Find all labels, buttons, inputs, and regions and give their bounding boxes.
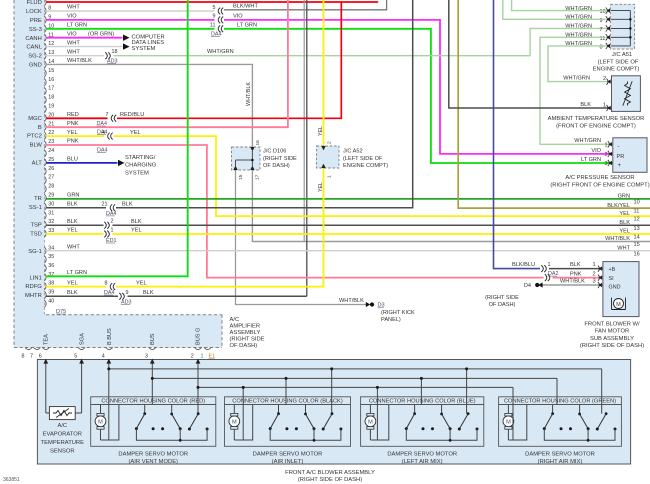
servo feed wires U4 (blue): [376, 387, 378, 440]
svg-text:PRE: PRE: [30, 18, 42, 24]
inline connector 9 on pin9 wire: [218, 17, 220, 24]
wire top RED (pin 7, cropped): [46, 1, 377, 3]
svg-text:16: 16: [48, 77, 54, 83]
svg-text:FAN MOTOR: FAN MOTOR: [595, 329, 629, 335]
svg-text:EVAPORATOR: EVAPORATOR: [43, 431, 82, 437]
arrow BUS G feed: [196, 359, 201, 364]
inline connector 5 on pin8 wire: [218, 8, 220, 15]
svg-text:7: 7: [30, 354, 33, 360]
A/C amplifier assembly interior shading (left strip): [14, 0, 45, 315]
A/C pressure sensor box: [613, 138, 647, 173]
svg-text:1: 1: [593, 262, 596, 268]
svg-text:DAMPER SERVO MOTOR: DAMPER SERVO MOTOR: [118, 452, 188, 458]
svg-text:ALT: ALT: [32, 160, 43, 166]
blower pin1 connector: [598, 266, 600, 272]
ambient sensor pin2 connector: [607, 79, 609, 85]
svg-text:7: 7: [106, 112, 109, 118]
servo motor U4 (blue): [367, 413, 374, 416]
svg-text:J/C A51: J/C A51: [612, 52, 632, 58]
blower motor symbol: [614, 299, 624, 309]
svg-text:WHT/BLK: WHT/BLK: [605, 236, 630, 242]
svg-text:15: 15: [48, 68, 54, 74]
svg-text:CONNECTOR HOUSING COLOR (RED): CONNECTOR HOUSING COLOR (RED): [101, 399, 205, 405]
ambient temperature sensor thermistor: [625, 82, 631, 106]
svg-text:8: 8: [22, 354, 25, 360]
arrow to computer data lines system (pin11): [123, 35, 130, 41]
servo connector box U4 (blue): [361, 397, 484, 447]
svg-text:(AIR VENT MODE): (AIR VENT MODE): [129, 459, 179, 465]
inline connector 2 on pin32 wire: [104, 222, 106, 229]
svg-text:-: -: [618, 144, 620, 150]
svg-text:GRN: GRN: [67, 193, 79, 199]
svg-text:PTC2: PTC2: [27, 134, 42, 140]
svg-text:LIN1: LIN1: [30, 275, 42, 281]
wire pin14 WHT/BLK to J/C D106 pin16: [46, 64, 252, 147]
svg-text:OF DASH): OF DASH): [230, 343, 258, 349]
svg-text:35: 35: [48, 254, 54, 260]
servo motor U3 (black): [231, 413, 238, 416]
svg-text:BLK: BLK: [131, 219, 142, 225]
svg-text:FRONT A/C BLOWER ASSEMBLY: FRONT A/C BLOWER ASSEMBLY: [285, 470, 375, 476]
wire pin32 BLK to right edge (circuit 13): [46, 224, 104, 226]
svg-text:BLK: BLK: [143, 290, 154, 296]
svg-text:YEL: YEL: [136, 280, 147, 286]
blower pin3 connector: [598, 282, 600, 288]
svg-text:16: 16: [634, 251, 640, 257]
J/C D106 pin17 arrow: [250, 166, 254, 170]
junction connector J/C A52 box: [317, 146, 340, 168]
pressure sensor pin3 connector: [608, 160, 610, 166]
svg-text:363851: 363851: [3, 477, 20, 483]
svg-text:WHT/GRN: WHT/GRN: [565, 24, 592, 30]
servo feed wires U2 (red): [108, 361, 110, 441]
bus wire 2 (BUS): [152, 377, 557, 379]
svg-text:2: 2: [603, 76, 606, 82]
svg-text:SUB ASSEMBLY: SUB ASSEMBLY: [590, 336, 634, 342]
svg-text:BLK: BLK: [580, 102, 591, 108]
svg-text:RDFG: RDFG: [25, 284, 42, 290]
svg-text:16: 16: [255, 140, 261, 146]
bus wire 3 (BUS G): [198, 386, 513, 388]
wire pin9 VIO: [46, 19, 215, 21]
wire pin37 LT GRN to top edge: [46, 0, 188, 276]
svg-text:PANEL): PANEL): [381, 317, 401, 323]
svg-text:M: M: [616, 302, 621, 308]
svg-text:18: 18: [48, 95, 54, 101]
wire pin34 WHT to right edge (circuit 16): [46, 250, 650, 252]
svg-text:15: 15: [238, 174, 244, 180]
servo position switch U3 (black): [278, 405, 280, 414]
svg-text:FRONT BLOWER W/: FRONT BLOWER W/: [584, 321, 640, 327]
svg-text:SENSOR: SENSOR: [50, 448, 74, 454]
wire BLK vertical (MHTR riser): [306, 0, 308, 296]
svg-text:+B: +B: [609, 267, 616, 273]
svg-text:10: 10: [634, 200, 640, 206]
svg-text:1: 1: [111, 228, 114, 234]
servo connector box U5 (green): [499, 397, 622, 447]
svg-text:1: 1: [201, 354, 204, 360]
wire pin25 BLU: [46, 162, 118, 164]
svg-text:LT GRN: LT GRN: [67, 23, 87, 29]
wire SGA to evaporator sensor: [81, 361, 83, 414]
svg-text:TSP: TSP: [31, 223, 42, 229]
svg-text:5: 5: [213, 5, 216, 11]
svg-text:3: 3: [593, 279, 596, 285]
svg-text:PNK: PNK: [570, 271, 582, 277]
svg-text:YEL: YEL: [130, 130, 141, 136]
wire BLK from top edge to ambient sensor pin1: [449, 0, 612, 108]
wire pin11 VIO (OR GRN): [46, 37, 123, 39]
svg-text:VIO: VIO: [233, 14, 243, 20]
svg-text:WHT/BLK: WHT/BLK: [339, 298, 364, 304]
svg-text:YEL: YEL: [318, 182, 324, 192]
svg-text:PR: PR: [617, 154, 625, 160]
svg-text:19: 19: [48, 104, 54, 110]
svg-text:27: 27: [48, 175, 54, 181]
svg-text:M: M: [98, 420, 103, 426]
svg-text:BLK: BLK: [67, 201, 78, 207]
svg-text:ASSEMBLY: ASSEMBLY: [230, 330, 261, 336]
svg-text:YEL: YEL: [67, 228, 78, 234]
servo motor U2 (red): [97, 413, 104, 416]
svg-text:DAMPER SERVO MOTOR: DAMPER SERVO MOTOR: [387, 452, 457, 458]
wire WHT/BLK J/C D106 pin15 to ground D3: [236, 170, 368, 305]
svg-text:26: 26: [48, 166, 54, 172]
ambient temperature sensor box: [612, 76, 641, 112]
A/C evaporator temperature sensor box: [49, 407, 75, 420]
wire WHT/GRN J/C A51 pin11 to pressure sensor pin1: [540, 37, 613, 144]
svg-text:YEL: YEL: [131, 228, 142, 234]
wire pin10 LT GRN: [46, 28, 215, 30]
svg-text:(RIGHT SIDE OF DASH): (RIGHT SIDE OF DASH): [298, 477, 362, 483]
svg-text:PNK: PNK: [67, 139, 79, 145]
svg-text:13: 13: [634, 226, 640, 232]
svg-text:18: 18: [112, 49, 118, 55]
ambient sensor pin1 connector: [607, 105, 609, 111]
svg-text:A/C: A/C: [57, 423, 67, 429]
svg-text:11: 11: [210, 23, 216, 29]
svg-text:11: 11: [634, 209, 640, 215]
svg-text:(RIGHT KICK: (RIGHT KICK: [381, 310, 415, 316]
svg-text:24: 24: [48, 148, 54, 154]
svg-text:9: 9: [126, 290, 129, 296]
svg-text:STARTING/: STARTING/: [125, 155, 156, 161]
wire pin29 GRN to right edge (circuit 10): [46, 198, 650, 200]
svg-text:30: 30: [48, 201, 54, 207]
svg-text:GND: GND: [609, 284, 621, 290]
wire YEL continuation (circuit 14): [113, 233, 650, 235]
svg-text:1: 1: [603, 102, 606, 108]
svg-text:BLK/YEL: BLK/YEL: [607, 203, 630, 209]
wire BLK to top edge (MHTR): [128, 295, 307, 297]
svg-text:VIO: VIO: [67, 14, 77, 20]
svg-text:17: 17: [48, 86, 54, 92]
svg-text:39: 39: [48, 289, 54, 295]
svg-text:1: 1: [605, 142, 608, 148]
svg-text:BLK: BLK: [570, 262, 581, 268]
wire VIO to A/C pressure sensor pin2: [224, 20, 613, 154]
pressure sensor pin1 connector: [608, 141, 610, 147]
svg-text:WHT: WHT: [67, 49, 80, 55]
svg-text:WHT: WHT: [617, 245, 630, 251]
J/C D106 pin16 arrow: [250, 147, 254, 151]
svg-text:DAMPER SERVO MOTOR: DAMPER SERVO MOTOR: [253, 452, 323, 458]
wire WHT/BLK blower GND to ground D4: [541, 284, 603, 286]
svg-text:WHT/GRN: WHT/GRN: [574, 138, 601, 144]
A/C amplifier assembly dashed border (bottom edge): [14, 347, 222, 349]
svg-text:(RIGHT SIDE: (RIGHT SIDE: [485, 295, 519, 301]
svg-text:31: 31: [48, 210, 54, 216]
wire pin13 WHT: [46, 55, 104, 57]
svg-text:LT GRN: LT GRN: [581, 157, 601, 163]
svg-text:RED/BLU: RED/BLU: [120, 112, 144, 118]
svg-text:VIO: VIO: [67, 31, 77, 37]
front A/C blower assembly box: [37, 360, 630, 465]
svg-text:6: 6: [39, 354, 42, 360]
svg-text:12: 12: [634, 217, 640, 223]
svg-text:J/C A52: J/C A52: [343, 149, 363, 155]
svg-text:YEL: YEL: [67, 130, 78, 136]
svg-text:PNK: PNK: [67, 121, 79, 127]
servo position switch U5 (green): [552, 405, 554, 414]
svg-text:WHT/BLK: WHT/BLK: [560, 279, 585, 285]
svg-text:BLW: BLW: [30, 143, 43, 149]
svg-text:OF DASH): OF DASH): [263, 163, 290, 169]
inline connector DA2 on PNK wire: [545, 274, 547, 281]
J/C D106 internal link: [236, 151, 253, 160]
svg-text:(LEFT SIDE OF: (LEFT SIDE OF: [598, 59, 639, 65]
svg-text:BLK: BLK: [619, 220, 630, 226]
wire WHT/GRN J/C A51 pin8 to ambient sensor pin2: [548, 46, 611, 82]
wire BLK to blower pin1: [549, 268, 603, 270]
inline connector 4 on pin22 wire: [108, 133, 110, 140]
svg-text:(RIGHT SIDE: (RIGHT SIDE: [230, 337, 265, 343]
svg-text:28: 28: [48, 184, 54, 190]
svg-text:5: 5: [74, 354, 77, 360]
arrow BUS feed: [150, 359, 155, 364]
svg-text:WHT/GRN: WHT/GRN: [207, 49, 234, 55]
arrow to starting/charging system: [118, 160, 125, 166]
J/C A52 pin2 arrow: [321, 146, 325, 150]
bus wire 1 (B BUS): [109, 368, 602, 370]
svg-text:2: 2: [111, 219, 114, 225]
svg-text:15: 15: [634, 242, 640, 248]
svg-text:CHARGING: CHARGING: [125, 163, 157, 169]
svg-text:SG-1: SG-1: [28, 249, 42, 255]
wire pin8 WHT: [46, 10, 215, 12]
J/C D106 pin15 arrow: [233, 166, 237, 170]
wire WHT/GRN to J/C A51 pin7: [114, 28, 606, 55]
svg-text:M: M: [506, 420, 511, 426]
wire TEA to evaporator sensor: [45, 361, 47, 414]
junction connector J/C A51 box: [611, 4, 635, 49]
svg-text:SG-2: SG-2: [28, 54, 42, 60]
wire WHT/GRN J/C A51 pin9: [503, 0, 606, 19]
svg-text:TR: TR: [34, 196, 42, 202]
connector D75 bottom dashed edge: [46, 314, 222, 316]
inline connector 1 on BLK/BLU wire: [541, 265, 543, 272]
wire BLK/BLU from top edge to blower +B: [494, 0, 541, 269]
servo motor U5 (green): [505, 413, 512, 416]
svg-text:(OR GRN): (OR GRN): [88, 31, 114, 37]
wire YEL to right edge (circuit 12): [114, 136, 650, 216]
wire BLK/WHT from connector 5: [224, 0, 387, 10]
svg-text:1: 1: [327, 175, 333, 178]
arrow B BUS feed: [106, 359, 111, 364]
svg-text:SYSTEM: SYSTEM: [125, 170, 149, 176]
svg-text:MGC: MGC: [28, 116, 42, 122]
svg-text:40: 40: [48, 298, 54, 304]
wire BLK/YEL from top edge to right edge (circuit 11): [458, 0, 650, 208]
arrow to computer data lines system (pin12): [123, 43, 130, 49]
wire pin30 BLK: [46, 207, 106, 209]
svg-text:3: 3: [605, 161, 608, 167]
svg-text:2: 2: [605, 152, 608, 158]
svg-text:WHT: WHT: [67, 5, 80, 11]
red wire end: [377, 1, 379, 3]
svg-text:TSD: TSD: [30, 232, 42, 238]
left connector pin bumps (pins 8-40): [45, 0, 47, 6]
A/C amplifier assembly dashed border (right edge): [221, 315, 223, 348]
svg-text:(LEFT SIDE OF: (LEFT SIDE OF: [343, 156, 383, 162]
svg-text:TEMPERATURE: TEMPERATURE: [41, 440, 85, 446]
svg-text:YEL: YEL: [67, 280, 78, 286]
svg-text:ENGINE COMPT): ENGINE COMPT): [343, 163, 388, 169]
svg-text:AMPLIFIER: AMPLIFIER: [230, 324, 261, 330]
svg-text:RED: RED: [67, 112, 79, 118]
svg-text:BUS: BUS: [150, 333, 156, 345]
junction connector J/C D106 box: [232, 147, 261, 170]
svg-text:SS-3: SS-3: [29, 27, 42, 33]
svg-text:BLK: BLK: [122, 201, 133, 207]
svg-text:BLK/WHT: BLK/WHT: [233, 4, 258, 10]
svg-text:M: M: [232, 420, 237, 426]
J/C A51 internal bus: [629, 11, 631, 46]
svg-text:17: 17: [255, 174, 261, 180]
connector D75 edge line with pin bumps: [44, 0, 46, 315]
svg-text:A/C: A/C: [230, 317, 240, 323]
svg-text:3: 3: [145, 354, 148, 360]
svg-text:(AIR INLET): (AIR INLET): [272, 459, 304, 465]
servo feed wires U5 (green): [512, 387, 514, 440]
svg-text:21: 21: [102, 202, 108, 208]
wire pin38 YEL: [46, 286, 106, 288]
wire pin21 PNK: [46, 0, 288, 127]
svg-text:WHT/GRN: WHT/GRN: [563, 76, 590, 82]
svg-text:(LEFT AIR MIX): (LEFT AIR MIX): [402, 459, 443, 465]
svg-text:TEA: TEA: [44, 334, 50, 345]
svg-text:2: 2: [327, 141, 333, 144]
svg-text:WHT: WHT: [67, 40, 80, 46]
svg-text:GND: GND: [29, 63, 42, 69]
svg-text:B: B: [38, 125, 42, 131]
svg-text:LOCK: LOCK: [26, 9, 42, 15]
inline connector 1 on pin33 wire: [104, 231, 106, 238]
wire WHT/BLK vertical at x304 (from top): [303, 0, 305, 242]
evaporator sensor thermistor: [53, 410, 72, 415]
svg-text:7: 7: [600, 27, 603, 33]
J/C A52 pin1 arrow: [321, 164, 325, 168]
svg-text:BLU: BLU: [67, 157, 78, 163]
wire pin22 YEL: [46, 135, 104, 137]
servo position switch U4 (blue): [414, 405, 416, 414]
wire RED/BLU to top row: [117, 2, 341, 118]
svg-text:B BUS: B BUS: [107, 328, 113, 345]
svg-text:ENGINE COMPT): ENGINE COMPT): [593, 67, 640, 73]
svg-text:CANL: CANL: [26, 45, 42, 51]
svg-text:J/C D106: J/C D106: [263, 149, 286, 155]
inline connector 8 on pin38 wire: [110, 283, 112, 290]
wire pin23 PNK to blower SI: [46, 145, 544, 278]
pressure sensor pin2 connector: [608, 151, 610, 157]
blower pin2 connector: [598, 275, 600, 281]
wire pin12 WHT: [46, 46, 123, 48]
wire WHT/GRN J/C A51 pin10: [512, 0, 606, 11]
svg-text:BLK: BLK: [67, 219, 78, 225]
ground point D3: [366, 302, 370, 307]
svg-text:4: 4: [102, 354, 105, 360]
svg-text:(RIGHT FRONT OF ENGINE COMPT): (RIGHT FRONT OF ENGINE COMPT): [550, 182, 649, 188]
svg-text:LT GRN: LT GRN: [237, 23, 257, 29]
ground point D4: [538, 282, 542, 287]
servo connector box U2 (red): [91, 397, 216, 447]
A/C amplifier assembly dashed border (left edge): [13, 0, 15, 348]
svg-text:36: 36: [48, 263, 54, 269]
svg-text:(RIGHT SIDE OF DASH): (RIGHT SIDE OF DASH): [580, 343, 644, 349]
svg-text:OF DASH): OF DASH): [489, 302, 516, 308]
wire BLK to top edge: [116, 0, 413, 208]
svg-text:(RIGHT SIDE: (RIGHT SIDE: [263, 156, 297, 162]
wire pin33 YEL to right edge (circuit 14): [46, 233, 104, 235]
svg-text:VIO: VIO: [591, 148, 601, 154]
svg-text:LT GRN: LT GRN: [67, 270, 87, 276]
svg-text:CONNECTOR HOUSING COLOR (BLUE): CONNECTOR HOUSING COLOR (BLUE): [369, 399, 476, 405]
svg-text:DAMPER SERVO MOTOR: DAMPER SERVO MOTOR: [525, 452, 595, 458]
svg-text:BLK/BLU: BLK/BLU: [512, 262, 535, 268]
svg-text:M: M: [368, 420, 373, 426]
svg-text:WHT/BLK: WHT/BLK: [246, 82, 252, 106]
bus junction dots: [107, 367, 110, 370]
inline connector 7 on pin20 wire: [111, 115, 113, 122]
svg-text:MHTR: MHTR: [25, 293, 42, 299]
svg-text:AMBIENT TEMPERATURE SENSOR: AMBIENT TEMPERATURE SENSOR: [548, 116, 645, 122]
servo feed wires U3 (black): [242, 387, 244, 440]
wire YEL through J/C A52 to top edge: [116, 0, 324, 287]
amplifier bottom edge bumps: [25, 348, 32, 350]
inline connector 21 on pin30 wire: [110, 204, 112, 211]
wire BLK continuation (circuit 13): [113, 224, 650, 226]
wire LT GRN to A/C pressure sensor pin3: [224, 29, 613, 163]
svg-text:GRN: GRN: [618, 194, 630, 200]
front blower w/ fan motor box: [603, 262, 639, 317]
wire PNK to blower pin2: [553, 277, 603, 279]
svg-text:WHT/BLK: WHT/BLK: [67, 58, 92, 64]
inline connector 18 on pin13 wire: [105, 52, 107, 59]
svg-text:2: 2: [593, 271, 596, 277]
svg-text:SI: SI: [609, 276, 614, 282]
svg-text:(RIGHT AIR MIX): (RIGHT AIR MIX): [538, 459, 583, 465]
svg-text:8: 8: [105, 280, 108, 286]
svg-text:YEL: YEL: [619, 229, 630, 235]
wire WHT/BLK J/C D106 pin17 to right edge (circuit 15): [252, 170, 650, 242]
svg-text:CONNECTOR HOUSING COLOR (BLACK: CONNECTOR HOUSING COLOR (BLACK): [232, 399, 343, 405]
svg-text:32: 32: [48, 219, 54, 225]
servo connector box U3 (black): [225, 397, 351, 447]
wire pin39 BLK: [46, 295, 118, 297]
svg-text:YEL: YEL: [318, 126, 324, 136]
svg-text:D4: D4: [524, 283, 531, 289]
svg-text:+: +: [618, 163, 622, 169]
